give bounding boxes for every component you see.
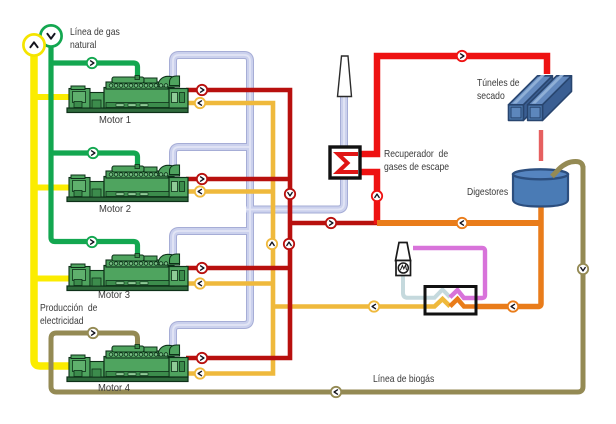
motor 3 engine (67, 254, 188, 291)
label electricity (40, 302, 97, 328)
arrow return motor1 (195, 98, 205, 108)
heat exchanger zigzag pink (450, 290, 477, 298)
label biogas line (373, 373, 434, 386)
arrow supply trunk down (285, 189, 295, 199)
exhaust gas pipe network (lavender), dark edge pass (173, 55, 344, 349)
tunnels to digester connector (salmon) (539, 130, 543, 161)
flow arrow: gas in (green, down) (40, 25, 61, 46)
label gas line (70, 26, 120, 52)
label tunnels (477, 77, 520, 103)
exhaust gas recuperator box (330, 147, 360, 178)
flow arrow: electricity out (yellow, up) (23, 34, 44, 55)
label motor 4 (98, 382, 130, 395)
exhaust pipe highlight pass (173, 55, 344, 349)
arrow gold from exchanger (369, 301, 379, 311)
arrow return motor3 (195, 278, 205, 288)
biogas line (khaki) (51, 162, 583, 393)
flare cooling line (pale blue) (403, 276, 424, 298)
motor 4 engine (67, 345, 188, 382)
motor 1 engine (67, 76, 188, 113)
label motor 3 (98, 289, 130, 302)
chimney (338, 56, 352, 97)
digester heating loop (orange) (377, 208, 541, 307)
motor 2 engine (67, 165, 188, 202)
heat exchanger zigzag gold (424, 299, 450, 307)
drying tunnels (509, 76, 572, 121)
arrow orange left (457, 218, 467, 228)
arrow biogas motor4 (88, 328, 98, 338)
label digester (467, 186, 508, 199)
arrow supply motor3 (197, 263, 207, 273)
natural gas line (green) (49, 44, 138, 258)
arrow supply motor4 (197, 353, 207, 363)
arrow biogas down (578, 264, 588, 274)
exhaust pipe body pass (173, 55, 344, 349)
label motor 2 (99, 203, 131, 216)
flare pink loop (413, 248, 485, 298)
label motor 1 (99, 114, 131, 127)
electricity line (yellow) (31, 50, 72, 366)
arrow gas motor3 (87, 237, 97, 247)
exhaust hot circuit (bright red) (359, 56, 547, 224)
arrow supply trunk up (284, 239, 294, 249)
heat exchanger zigzag orange (450, 299, 477, 307)
label recuperator (384, 148, 449, 174)
arrow orange to exchanger (508, 301, 518, 311)
recuperator sigma (338, 154, 358, 172)
arrow return motor4 (195, 368, 205, 378)
arrow to recuperator (326, 218, 336, 228)
arrow gas motor1 (87, 58, 97, 68)
arrow red riser up (372, 191, 382, 201)
heat exchanger box (425, 287, 476, 315)
hot water return line (gold) (186, 103, 424, 374)
arrow supply motor2 (197, 174, 207, 184)
arrow biogas left (331, 387, 341, 397)
arrow hot gas to tunnels (457, 51, 467, 61)
arrow return trunk up (267, 239, 277, 249)
arrow supply motor1 (197, 85, 207, 95)
heat exchanger border (425, 287, 476, 315)
digester tank (513, 169, 568, 206)
flare icon (396, 243, 411, 276)
arrow gas motor2 (88, 148, 98, 158)
hot water supply line (dark red) (186, 90, 377, 358)
heat exchanger zigzag pale blue (424, 290, 450, 298)
arrow return motor2 (195, 186, 205, 196)
